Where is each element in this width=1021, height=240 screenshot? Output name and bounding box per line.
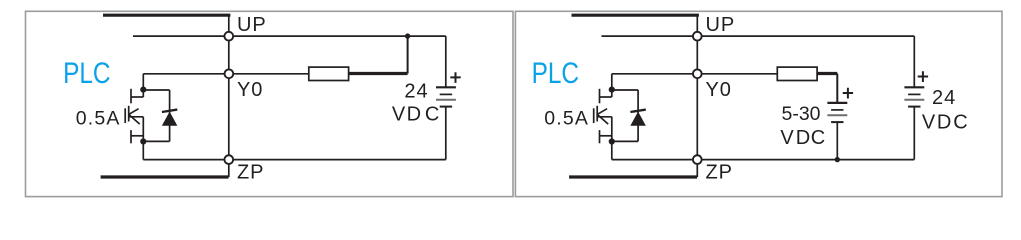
PLC enclosure bottom thick line	[101, 175, 229, 178]
svg-text:UP: UP	[237, 14, 267, 36]
wire UP terminal to battery column	[229, 35, 446, 37]
wire Y0 terminal to transistor (right)	[612, 73, 698, 75]
internal UP stub wire	[133, 35, 229, 37]
battery B1 top wire	[445, 36, 447, 87]
thick wire resistor to riser	[349, 72, 408, 75]
battery B2 plates	[827, 103, 847, 122]
battery B3 riser wire	[913, 107, 915, 160]
return wire ZP to battery B3	[697, 159, 914, 161]
terminal ZP	[224, 155, 233, 164]
terminal column wire (right)	[696, 15, 698, 177]
terminal column wire	[228, 15, 230, 177]
svg-text:VDC: VDC	[392, 103, 439, 125]
transistor Q2 (output MOSFET)	[594, 89, 612, 160]
svg-text:VDC: VDC	[922, 112, 968, 134]
thick wire resistor to battery B2	[817, 72, 837, 75]
battery B3 plates	[904, 87, 924, 106]
junction dot drain (right)	[609, 87, 615, 93]
terminal UP	[224, 32, 233, 41]
load resistor R2	[777, 67, 817, 80]
svg-text:VDC: VDC	[780, 127, 825, 149]
terminal UP (right)	[693, 32, 702, 41]
transistor drain vertical wire	[142, 74, 144, 97]
riser wire to UP net	[407, 36, 409, 73]
junction dot source (right)	[609, 138, 615, 144]
PLC enclosure top thick line	[103, 14, 230, 17]
panel frame left	[26, 11, 514, 196]
internal UP stub wire (right)	[602, 35, 698, 37]
wire transistor source to ZP (right)	[612, 159, 698, 161]
battery B2 plus sign	[843, 88, 853, 99]
transistor Q1 (output MOSFET)	[125, 89, 143, 160]
svg-text:ZP: ZP	[706, 161, 733, 183]
panel frame right	[515, 11, 1002, 196]
wire Y0 terminal to transistor	[143, 73, 229, 75]
svg-text:24: 24	[404, 80, 428, 102]
flyback diode D2 branch wires	[612, 90, 638, 141]
battery B1 bottom wire	[445, 107, 447, 160]
PLC enclosure bottom thick line (right)	[569, 175, 697, 178]
terminal Y0 (right)	[693, 69, 702, 78]
load resistor R1	[309, 67, 349, 80]
wire transistor source to ZP	[143, 159, 229, 161]
wire Y0 terminal to resistor (right)	[697, 73, 777, 75]
wire Y0 terminal to resistor	[229, 73, 309, 75]
svg-text:ZP: ZP	[237, 161, 264, 183]
svg-text:Y0: Y0	[706, 79, 732, 101]
flyback diode D2 symbol	[630, 110, 645, 126]
junction dot drain	[140, 87, 146, 93]
battery B3 plus sign	[918, 71, 928, 82]
svg-text:0.5A: 0.5A	[76, 108, 121, 130]
svg-text:5-30: 5-30	[782, 103, 821, 125]
terminal Y0	[225, 69, 234, 78]
svg-text:UP: UP	[706, 14, 736, 36]
flyback diode D1 symbol	[162, 110, 177, 126]
svg-text:PLC: PLC	[63, 57, 110, 90]
svg-text:24: 24	[932, 87, 956, 109]
PLC enclosure top thick line (right)	[572, 14, 699, 17]
return wire ZP to battery B1	[229, 159, 446, 161]
battery B1 plates	[436, 87, 456, 106]
svg-text:0.5A: 0.5A	[544, 108, 589, 130]
svg-text:Y0: Y0	[237, 79, 263, 101]
svg-text:PLC: PLC	[532, 57, 579, 90]
battery B3 top wire	[913, 36, 915, 87]
transistor drain vertical wire (right)	[611, 74, 613, 97]
battery B1 plus sign	[450, 72, 460, 83]
terminal ZP (right)	[693, 155, 702, 164]
flyback diode D1 branch wires	[143, 90, 169, 141]
junction dot source	[140, 138, 146, 144]
wire UP terminal to battery column (right)	[697, 35, 914, 37]
battery B2 bottom wire	[836, 122, 838, 160]
junction dot on return net	[835, 157, 840, 162]
battery B2 top wire	[836, 74, 838, 103]
junction dot on UP net	[405, 33, 410, 38]
